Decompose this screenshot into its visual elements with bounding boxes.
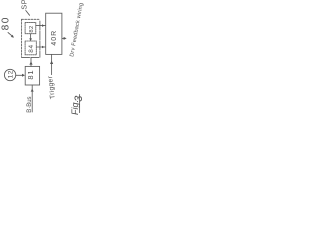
node Fig 3 caption	[70, 95, 85, 115]
wire trigger input into 40R bottom	[51, 55, 53, 75]
node B-Bus label	[27, 96, 33, 112]
wire B-Bus up into 81 with arrowhead	[31, 85, 33, 112]
svg-text:82: 82	[29, 25, 35, 32]
svg-text:84: 84	[28, 44, 35, 53]
svg-text:3: 3	[73, 95, 85, 102]
wire 82 output to big box with arrowhead	[36, 25, 45, 27]
svg-text:B·Bus: B·Bus	[27, 96, 33, 112]
svg-text:40R: 40R	[51, 30, 58, 46]
svg-text:SP: SP	[19, 0, 28, 10]
svg-text:81: 81	[26, 70, 35, 80]
node Drv Feedback wiring label	[69, 2, 84, 57]
node 80 label (BD)	[1, 16, 12, 30]
box 82 (upper inner box)	[25, 23, 36, 34]
svg-text:12: 12	[8, 70, 15, 78]
dashed box SP	[21, 19, 23, 57]
node SP label	[19, 0, 28, 10]
wire arrow 82 to 84	[30, 34, 32, 40]
wire leader arrow from 80 pointing to dashed box	[8, 33, 13, 37]
wire leader from SP to dashed box	[26, 11, 30, 16]
underline of Fig 3	[79, 95, 81, 113]
wire 84 output to big box with arrowhead	[37, 46, 46, 48]
source circle 12	[4, 69, 15, 80]
node Trigger label	[47, 75, 57, 99]
wire 81 up into dashed box with arrowhead	[30, 58, 32, 67]
wire output arrow right of 40R	[62, 37, 65, 39]
box 40R (large box)	[46, 13, 62, 54]
svg-text:80: 80	[1, 16, 12, 30]
box 81	[25, 66, 39, 85]
wire arrow circle to box 81	[16, 74, 24, 76]
box 84 (lower inner box)	[25, 41, 36, 55]
